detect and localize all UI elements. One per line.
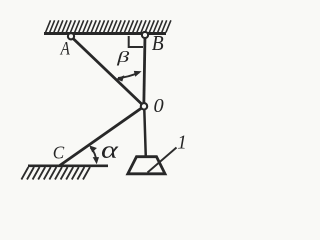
svg-text:α: α [101, 136, 119, 164]
beta angle double arrow [118, 72, 139, 78]
member AO [71, 37, 144, 107]
right-angle mark at B [129, 36, 143, 47]
label 1 [177, 132, 186, 154]
label C [53, 142, 65, 163]
member CO [59, 106, 144, 166]
alpha angle double arrow [91, 148, 97, 162]
floor line [28, 165, 108, 168]
label B [152, 32, 164, 55]
label O [154, 95, 164, 117]
svg-text:β: β [116, 49, 130, 66]
hanger rod [144, 106, 146, 157]
ceiling line [44, 32, 166, 35]
svg-text:0: 0 [154, 95, 164, 117]
label beta [116, 49, 130, 66]
label A [60, 38, 71, 59]
leader line to label 1 [148, 148, 177, 173]
weight 1 (trapezoid) [128, 157, 165, 174]
pin A [68, 33, 74, 39]
svg-text:C: C [53, 142, 65, 163]
member BO [144, 35, 145, 106]
ceiling hatch [46, 20, 171, 32]
floor hatch [21, 167, 90, 180]
pin B [142, 32, 148, 38]
svg-text:A: A [60, 38, 71, 59]
label alpha [101, 136, 119, 164]
svg-text:1: 1 [177, 132, 186, 154]
svg-text:B: B [152, 32, 164, 55]
pin O [141, 103, 147, 109]
